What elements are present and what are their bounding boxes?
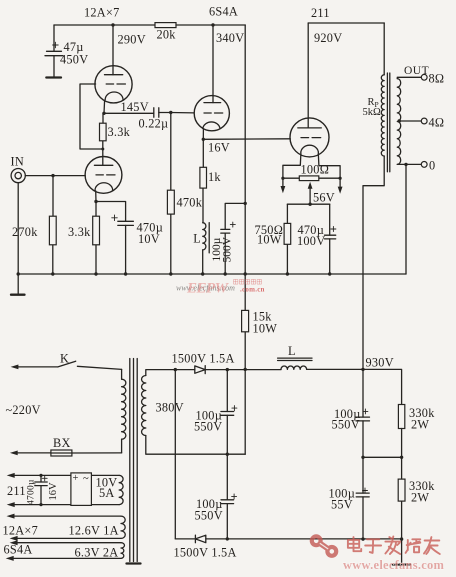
label ~220V bbox=[6, 403, 41, 417]
node bus 270k bbox=[51, 272, 54, 275]
node 270k tap bbox=[51, 174, 54, 177]
svg-text:550V: 550V bbox=[332, 418, 360, 432]
svg-text:0: 0 bbox=[429, 159, 435, 173]
svg-text:1500V 1.5A: 1500V 1.5A bbox=[174, 546, 237, 560]
svg-text:.com.cn: .com.cn bbox=[240, 286, 265, 294]
svg-text:~: ~ bbox=[83, 474, 89, 485]
svg-text:380V: 380V bbox=[156, 401, 184, 415]
node cap1 top bbox=[226, 368, 229, 371]
svg-text:EEPW: EEPW bbox=[186, 281, 230, 297]
wire heater 6.3V bottom bbox=[6, 556, 121, 561]
wire top B+ rail right segment bbox=[176, 24, 245, 26]
svg-text:www.elecfans.com: www.elecfans.com bbox=[343, 558, 445, 572]
svg-text:211: 211 bbox=[7, 484, 26, 498]
node cap2 bottom bbox=[226, 537, 229, 540]
node divider right bbox=[400, 456, 403, 459]
rectifier bridge 10V 5A bbox=[71, 473, 118, 506]
node 0 tap bbox=[404, 163, 407, 166]
wire secondary bottom to 0 bbox=[397, 163, 421, 165]
node bus 3.3k bbox=[94, 272, 97, 275]
label tube 12AX7 bbox=[84, 6, 120, 20]
label 211 filament bbox=[7, 484, 26, 498]
capacitor C9 100u 55V bbox=[329, 487, 370, 540]
wire cap to grid node bbox=[159, 112, 171, 114]
svg-text:12.6V 1A: 12.6V 1A bbox=[69, 524, 119, 538]
svg-text:290V: 290V bbox=[118, 33, 146, 47]
node 340V decoupling tap bbox=[244, 202, 247, 205]
node V1b plate bbox=[101, 148, 104, 151]
wire secondary top to 8ohm bbox=[397, 77, 421, 78]
tube V1a 12AX7 upper triode bbox=[95, 66, 132, 103]
svg-text:1500V 1.5A: 1500V 1.5A bbox=[172, 352, 235, 366]
terminal 8 ohm bbox=[421, 72, 444, 86]
capacitor C10 4700u 16V bbox=[27, 474, 60, 506]
capacitor C7 100u 550V lower bbox=[195, 454, 237, 539]
svg-text:500V: 500V bbox=[222, 236, 234, 262]
transformer PT winding 6.3V bbox=[121, 543, 124, 559]
node divider left bbox=[361, 456, 364, 459]
node 145V bbox=[102, 112, 105, 115]
svg-text:K: K bbox=[60, 352, 69, 366]
wire AC riser to lower diode bbox=[174, 370, 176, 539]
svg-text:16V: 16V bbox=[48, 482, 59, 501]
wire plate lead V1a bbox=[112, 25, 114, 75]
wire cathode 6S4A bbox=[202, 129, 204, 139]
node plate V1a on rail bbox=[111, 23, 114, 26]
resistor R 470k grid leak 6S4A bbox=[167, 113, 202, 275]
tube 211 power triode bbox=[290, 118, 329, 157]
transformer PT winding 10V bbox=[119, 475, 123, 504]
wire OPT primary top lead bbox=[383, 23, 385, 75]
svg-text:211: 211 bbox=[311, 6, 330, 20]
svg-text:550V: 550V bbox=[194, 420, 222, 434]
label 145V bbox=[121, 100, 149, 114]
node cathode V1b bbox=[94, 200, 97, 203]
wire plate lead 211 bbox=[307, 23, 309, 128]
svg-text:10W: 10W bbox=[257, 233, 282, 247]
wire lower DC return line bbox=[206, 538, 401, 540]
svg-text:6S4A: 6S4A bbox=[209, 5, 238, 19]
tube 6S4A driver bbox=[194, 25, 229, 131]
svg-text:12A×7: 12A×7 bbox=[3, 524, 39, 538]
svg-text:5kΩ: 5kΩ bbox=[363, 107, 382, 118]
svg-text:10V: 10V bbox=[138, 232, 160, 246]
svg-text:6S4A: 6S4A bbox=[4, 543, 33, 557]
svg-text:~220V: ~220V bbox=[6, 403, 41, 417]
node bus 100u500V bbox=[224, 272, 227, 275]
svg-text:8Ω: 8Ω bbox=[429, 72, 445, 86]
node bus riser bbox=[244, 272, 247, 275]
svg-text:450V: 450V bbox=[60, 53, 88, 67]
watermark center EEPW red bbox=[186, 281, 230, 297]
node bus 750ohm bbox=[286, 272, 289, 275]
wire node to 6S4A grid bbox=[171, 112, 194, 114]
capacitor C4 100u 500V decoupling bbox=[211, 222, 236, 274]
wire choke to bus bbox=[202, 250, 204, 274]
svg-text:5A: 5A bbox=[99, 486, 115, 500]
svg-text:550V: 550V bbox=[195, 509, 223, 523]
svg-text:470k: 470k bbox=[177, 196, 203, 210]
wire 920V rail bbox=[308, 22, 384, 24]
label OUT bbox=[404, 65, 429, 77]
svg-text:+: + bbox=[73, 473, 79, 484]
svg-text:340V: 340V bbox=[216, 31, 244, 45]
wire IN to grid V1b bbox=[25, 175, 85, 177]
wire 0 tap riser to bus bbox=[405, 164, 407, 274]
wiper arrow up 56V bbox=[308, 182, 335, 205]
resistor 20k bbox=[155, 23, 176, 42]
label 920V bbox=[314, 31, 342, 45]
node cap1 bottom bbox=[226, 453, 229, 456]
node 4ohm tap bbox=[398, 119, 401, 122]
node grid 6S4A / 470k bbox=[169, 111, 172, 114]
terminal 4 ohm bbox=[421, 116, 444, 130]
svg-text:1k: 1k bbox=[208, 170, 221, 184]
resistor R 3.3k upper bbox=[100, 113, 131, 149]
ground symbol bottom right bbox=[393, 539, 410, 564]
watermark bottomright icon bbox=[312, 536, 336, 555]
svg-text:16V: 16V bbox=[208, 141, 230, 155]
terminal 0 bbox=[421, 159, 435, 173]
wire heater 12.6V top bbox=[7, 514, 122, 519]
node winding-top tap bbox=[174, 368, 177, 371]
label 12AX7 heater bbox=[3, 524, 119, 538]
wire filament lead right 211 bbox=[318, 153, 340, 187]
svg-text:55V: 55V bbox=[331, 498, 353, 512]
node return right bbox=[400, 537, 403, 540]
resistor R 750ohm 10W bbox=[255, 204, 291, 274]
wire 56V node spread bbox=[287, 203, 329, 205]
wire below C1 bbox=[53, 56, 55, 77]
node bus 470k bbox=[169, 272, 172, 275]
svg-text:6.3V 2A: 6.3V 2A bbox=[75, 546, 119, 560]
wire IN shield down bbox=[17, 183, 19, 274]
watermark center gray url bbox=[176, 284, 235, 293]
watermark bottomright chinese bbox=[348, 537, 440, 555]
wire heater 6.3V top bbox=[10, 540, 121, 545]
label 340V bbox=[216, 31, 244, 45]
wire heater 12.6V bottom bbox=[10, 536, 121, 541]
node bus choke bbox=[201, 272, 204, 275]
svg-text:BX: BX bbox=[53, 436, 71, 450]
svg-text:2W: 2W bbox=[411, 418, 429, 432]
wire filament lead left 211 bbox=[283, 153, 301, 186]
wire 16V node to 211 grid bbox=[203, 138, 290, 141]
transformer OPT secondary bbox=[397, 79, 400, 165]
wire 145V node to coupling cap bbox=[104, 112, 154, 114]
fuse BX bbox=[10, 436, 122, 456]
wire OPT primary bottom lead bbox=[363, 156, 384, 417]
ground symbol bottom left bbox=[11, 274, 25, 295]
node pot left bbox=[281, 177, 284, 180]
ground chassis PT core bbox=[127, 562, 141, 564]
svg-text:56V: 56V bbox=[313, 191, 335, 205]
wire plate lead V1b bbox=[102, 149, 104, 165]
diode D1 1500V 1.5A upper bbox=[172, 352, 235, 374]
bus ground horizontal bbox=[18, 273, 406, 275]
wire grid V1a to lower node bbox=[80, 84, 103, 149]
ground chassis top-left bbox=[46, 76, 61, 78]
label tube 6S4A top bbox=[209, 5, 238, 19]
wire mid divider link bbox=[363, 456, 402, 458]
wire B+ riser 340V down full bbox=[244, 25, 246, 454]
resistor R 1k cathode 6S4A bbox=[200, 139, 221, 222]
node 16V bbox=[202, 138, 230, 155]
inductor L cathode choke bbox=[193, 223, 209, 253]
resistor R 3.3k cathode bbox=[68, 202, 100, 275]
wire 4ohm tap bbox=[399, 120, 421, 122]
node bus IN bbox=[17, 272, 20, 275]
svg-text:930V: 930V bbox=[366, 356, 394, 370]
node bus 470u100V bbox=[328, 272, 331, 275]
wire to bypass cap bbox=[96, 202, 126, 222]
wire diode out to choke bbox=[205, 369, 281, 371]
node return left bbox=[361, 537, 364, 540]
wire decoupling tap bbox=[225, 203, 245, 229]
wire cathode V1b bbox=[95, 191, 97, 202]
watermark center chinese red bbox=[234, 280, 265, 294]
capacitor C1 47u 450V bbox=[45, 40, 88, 67]
transformer PT winding 12.6V bbox=[121, 516, 125, 538]
svg-text:100V: 100V bbox=[297, 234, 325, 248]
label tube 211 top bbox=[311, 6, 330, 20]
capacitor C8 100u 550V right bbox=[332, 407, 370, 493]
transformer OPT core bbox=[387, 73, 389, 172]
svg-text:20k: 20k bbox=[157, 28, 177, 42]
svg-text:145V: 145V bbox=[121, 100, 149, 114]
transformer PT primary 220V bbox=[122, 369, 126, 453]
wire left branch down to capacitor bbox=[53, 25, 55, 51]
svg-text:12A×7: 12A×7 bbox=[84, 6, 120, 20]
svg-text:L: L bbox=[288, 344, 296, 358]
capacitor C2 0.22u coupling bbox=[139, 108, 169, 131]
label 6S4A heater bbox=[4, 543, 119, 560]
label 290V bbox=[118, 33, 146, 47]
inductor L filter choke bbox=[278, 344, 312, 369]
wire cathode V1a bbox=[103, 100, 106, 113]
transformer OPT primary Rp bbox=[363, 75, 385, 156]
node pot right bbox=[339, 177, 342, 180]
resistor R 15k 10W bleeder bbox=[242, 310, 278, 336]
wire filament supply bottom bbox=[7, 502, 120, 507]
resistor R 270k bbox=[12, 176, 56, 274]
diode D2 1500V 1.5A lower bbox=[174, 535, 237, 559]
transformer PT secondary 380V bbox=[142, 370, 246, 455]
wire top B+ rail left segment bbox=[54, 24, 155, 26]
svg-text:10W: 10W bbox=[253, 322, 278, 336]
node plate 6S4A on rail bbox=[211, 23, 214, 26]
tube V1b 12AX7 lower triode bbox=[85, 157, 122, 194]
capacitor C5 470u 100V filament bbox=[297, 204, 336, 274]
terminal IN bbox=[11, 155, 26, 183]
node bus 470u bbox=[124, 272, 127, 275]
capacitor C6 100u 550V upper bbox=[194, 370, 237, 455]
arrow filament right down bbox=[338, 187, 343, 194]
svg-text:920V: 920V bbox=[314, 31, 342, 45]
node supply line 15k bbox=[244, 368, 247, 371]
wire choke to 930V node bbox=[307, 369, 402, 404]
svg-text:3.3k: 3.3k bbox=[68, 225, 91, 239]
svg-text:270k: 270k bbox=[12, 225, 38, 239]
svg-text:L: L bbox=[193, 232, 201, 246]
svg-text:4Ω: 4Ω bbox=[429, 116, 445, 130]
svg-text:OUT: OUT bbox=[404, 65, 429, 77]
svg-text:0.22µ: 0.22µ bbox=[139, 117, 169, 131]
resistor R 330k 2W lower bbox=[398, 457, 435, 539]
resistor R 330k 2W upper bbox=[398, 405, 435, 458]
arrow filament left down bbox=[281, 186, 286, 193]
watermark bottomright url bbox=[343, 558, 445, 572]
svg-text:3.3k: 3.3k bbox=[108, 125, 131, 139]
node 930V bbox=[361, 356, 394, 372]
switch K bbox=[11, 352, 122, 370]
potentiometer 100 ohm hum balance bbox=[283, 163, 340, 181]
svg-text:4700µ: 4700µ bbox=[27, 479, 37, 505]
svg-text:2W: 2W bbox=[411, 491, 429, 505]
node 56V bbox=[308, 203, 311, 206]
svg-text:100Ω: 100Ω bbox=[301, 163, 330, 177]
wire filament supply top bbox=[7, 473, 120, 478]
capacitor C3 470u 10V bypass bbox=[112, 215, 163, 274]
svg-text:IN: IN bbox=[11, 155, 24, 169]
transformer PT core bbox=[130, 359, 137, 562]
